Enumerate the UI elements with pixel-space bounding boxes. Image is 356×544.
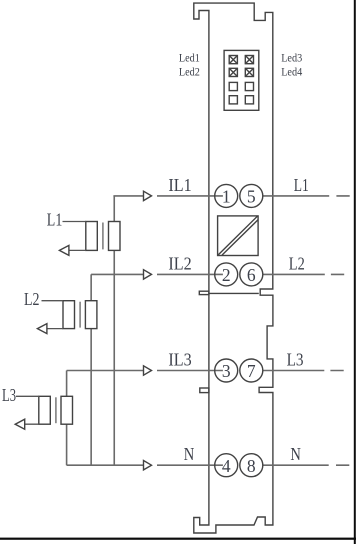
svg-text:N: N xyxy=(184,444,195,464)
svg-text:2: 2 xyxy=(222,265,231,285)
svg-text:L1: L1 xyxy=(47,210,63,230)
svg-text:L2: L2 xyxy=(289,254,305,274)
svg-text:5: 5 xyxy=(247,186,256,206)
svg-text:IL3: IL3 xyxy=(168,350,192,370)
svg-text:Led2: Led2 xyxy=(179,65,200,78)
svg-text:1: 1 xyxy=(222,186,231,206)
svg-text:4: 4 xyxy=(222,456,231,476)
svg-text:L3: L3 xyxy=(2,385,16,405)
svg-text:N: N xyxy=(290,444,301,464)
svg-text:6: 6 xyxy=(247,265,256,285)
svg-text:Led4: Led4 xyxy=(281,65,302,78)
svg-text:L3: L3 xyxy=(287,350,304,370)
svg-text:L1: L1 xyxy=(294,175,309,195)
svg-text:8: 8 xyxy=(247,456,256,476)
svg-text:Led1: Led1 xyxy=(179,52,200,65)
svg-text:3: 3 xyxy=(222,361,231,381)
svg-text:IL2: IL2 xyxy=(168,254,191,274)
svg-text:7: 7 xyxy=(247,361,256,381)
svg-text:IL1: IL1 xyxy=(168,175,191,195)
svg-text:Led3: Led3 xyxy=(281,52,302,65)
svg-text:L2: L2 xyxy=(24,289,40,309)
